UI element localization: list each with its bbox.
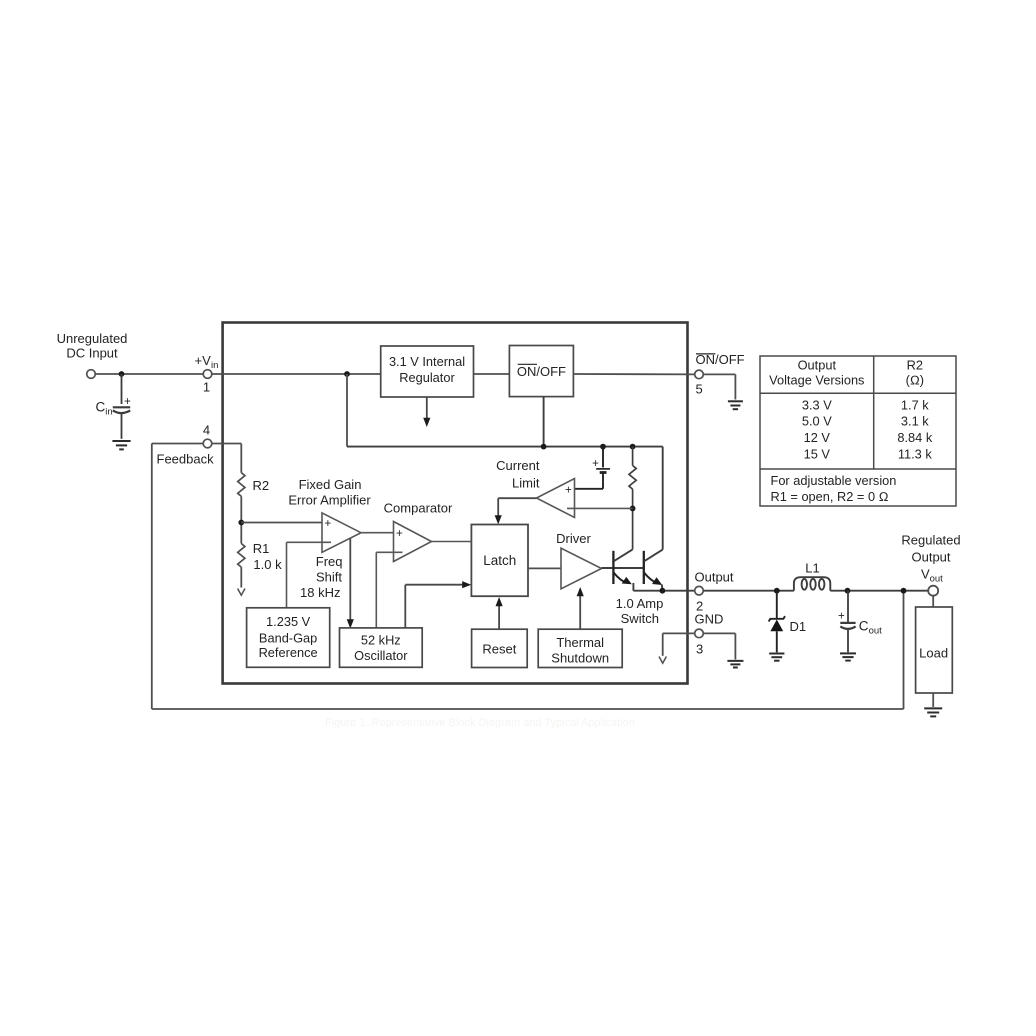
svg-text:Fixed Gain: Fixed Gain <box>299 477 362 492</box>
pin 3 terminal <box>695 629 704 638</box>
svg-text:Reset: Reset <box>482 642 516 657</box>
svg-text:Voltage Versions: Voltage Versions <box>769 373 864 388</box>
wire emitter to output pin <box>633 590 694 592</box>
input terminal <box>87 370 96 379</box>
svg-text:ON/OFF: ON/OFF <box>517 364 566 379</box>
wire rail drop to internal bus <box>346 374 348 447</box>
inductor L1 <box>794 577 830 591</box>
wire input to pin1 <box>95 373 203 375</box>
wire comparator minus input <box>376 552 402 628</box>
wire feedback loop <box>152 444 904 710</box>
wire oscillator to latch <box>405 585 464 628</box>
op-amp error amplifier <box>322 513 361 552</box>
resistor R1 1.0k <box>238 544 245 568</box>
label 1.0 Amp Switch <box>616 596 664 626</box>
svg-text:Output: Output <box>798 358 837 373</box>
svg-text:3.1 V Internal: 3.1 V Internal <box>389 354 465 369</box>
block Latch <box>471 525 528 597</box>
svg-text:+: + <box>124 396 131 408</box>
overline ON (pin label) <box>696 353 715 355</box>
svg-text:R2: R2 <box>253 478 270 493</box>
node feedback tap <box>901 588 907 594</box>
node bus junction battery <box>600 444 606 450</box>
resistor current sense <box>629 447 636 550</box>
svg-text:Shutdown: Shutdown <box>551 651 609 666</box>
transistor Q2 (1.0 Amp switch) <box>644 550 663 590</box>
ground (Load) <box>924 708 942 716</box>
ground (Cout) <box>840 653 856 660</box>
op-amp comparator <box>394 522 432 562</box>
wire bus bend to Q2 collector <box>662 447 664 550</box>
block Reset <box>472 629 528 667</box>
capacitor Cout <box>840 591 855 653</box>
svg-text:R1 = open, R2 = 0 Ω: R1 = open, R2 = 0 Ω <box>771 489 889 504</box>
ground (ON/OFF) <box>728 401 743 409</box>
wire R2 to node <box>240 496 242 543</box>
svg-text:Figure 1. Representative Block: Figure 1. Representative Block Diagram a… <box>325 717 635 729</box>
svg-text:18 kHz: 18 kHz <box>300 585 340 600</box>
battery V-ref current limit <box>575 447 610 489</box>
table footer text <box>771 473 897 504</box>
label Current Limit <box>496 458 540 491</box>
block oscillator 52kHz <box>340 628 423 667</box>
label Freq Shift 18 kHz <box>300 554 342 600</box>
svg-text:15 V: 15 V <box>804 447 831 462</box>
node feedback divider <box>238 520 244 526</box>
svg-text:+: + <box>324 518 331 530</box>
node bus junction ON/OFF <box>541 444 547 450</box>
arrow Reset to latch <box>496 597 503 629</box>
svg-text:+: + <box>838 611 845 623</box>
svg-text:Output: Output <box>911 550 950 565</box>
label ON/OFF pin5 <box>696 352 745 397</box>
node current-limit junction <box>630 506 636 512</box>
wire driver to bases <box>602 567 644 569</box>
svg-text:Regulator: Regulator <box>399 370 455 385</box>
svg-text:in: in <box>105 407 112 418</box>
svg-text:52 kHz: 52 kHz <box>361 633 401 648</box>
resistor Load box <box>916 607 953 693</box>
svg-text:3.1 k: 3.1 k <box>901 414 929 429</box>
svg-text:Current: Current <box>496 458 540 473</box>
svg-text:Switch: Switch <box>621 611 659 626</box>
wire CL minus input <box>567 507 633 509</box>
svg-text:Latch: Latch <box>483 553 516 568</box>
wire regulator to ON/OFF <box>474 373 510 375</box>
svg-text:Driver: Driver <box>556 531 591 546</box>
svg-text:Output: Output <box>695 570 734 585</box>
transistor Q1 <box>613 549 633 590</box>
pin 5 terminal <box>695 370 704 379</box>
wire Vout to load <box>932 596 934 607</box>
block band-gap reference <box>247 608 330 668</box>
ground (Cin) <box>112 441 130 449</box>
table header text <box>769 358 924 388</box>
svg-text:in: in <box>211 360 218 371</box>
svg-text:out: out <box>869 626 883 637</box>
wire load to ground <box>932 693 934 707</box>
svg-text:Reference: Reference <box>259 645 318 660</box>
arrow regulator output down <box>423 397 430 427</box>
svg-text:1.0 Amp: 1.0 Amp <box>616 596 664 611</box>
terminal Vout <box>928 586 938 596</box>
overline ON (block) <box>518 363 537 365</box>
svg-text:L1: L1 <box>805 561 819 576</box>
label Cin <box>96 400 113 418</box>
svg-text:Regulated: Regulated <box>901 533 960 548</box>
svg-text:Limit: Limit <box>512 476 540 491</box>
ground (D1) <box>769 654 784 661</box>
pin 4 terminal <box>203 439 212 448</box>
label Output pin2 <box>695 570 734 614</box>
svg-text:Comparator: Comparator <box>384 501 453 516</box>
label Unregulated DC Input <box>57 331 128 361</box>
svg-text:1.7 k: 1.7 k <box>901 398 929 413</box>
wire internal supply bus <box>347 446 663 448</box>
wire pin3 to ground <box>703 633 735 659</box>
wire divider to error amp + <box>241 522 322 524</box>
label Cout <box>859 619 882 637</box>
svg-text:4: 4 <box>203 423 210 438</box>
arrow into oscillator <box>347 619 354 628</box>
wire pin5 to ground <box>703 374 735 399</box>
wire output line to L1 <box>703 590 794 592</box>
op-amp current limit comparator <box>537 479 575 518</box>
diode D1 (Schottky) <box>769 591 785 653</box>
svg-text:GND: GND <box>695 612 724 627</box>
node D1 tap <box>774 588 780 594</box>
regulator box 3.1V <box>381 346 474 397</box>
table rows text <box>802 398 933 462</box>
arrow into latch side <box>462 581 471 588</box>
svg-text:C: C <box>96 400 106 415</box>
svg-text:Band-Gap: Band-Gap <box>259 630 317 645</box>
svg-text:out: out <box>930 573 944 584</box>
wire error amp minus input <box>287 542 332 608</box>
svg-text:R2: R2 <box>907 358 923 373</box>
svg-text:R1: R1 <box>253 541 270 556</box>
svg-text:Error Amplifier: Error Amplifier <box>288 492 371 507</box>
svg-text:1.235 V: 1.235 V <box>266 614 311 629</box>
block ON/OFF <box>509 346 573 397</box>
wire comparator to latch <box>432 541 472 543</box>
buffer driver <box>561 548 602 589</box>
wire CL output to latch <box>498 498 536 517</box>
svg-text:5: 5 <box>696 382 703 397</box>
svg-text:1: 1 <box>203 380 210 395</box>
node output emitter junction <box>660 588 666 594</box>
svg-text:Oscillator: Oscillator <box>354 648 408 663</box>
svg-text:1.0 k: 1.0 k <box>253 557 282 572</box>
wire error amp to comparator <box>361 532 394 534</box>
wire ON/OFF to pin5 <box>573 373 694 375</box>
svg-text:Feedback: Feedback <box>157 451 215 466</box>
svg-text:5.0 V: 5.0 V <box>802 414 832 429</box>
svg-text:DC Input: DC Input <box>66 346 118 361</box>
svg-text:+: + <box>565 485 572 497</box>
svg-text:12 V: 12 V <box>804 430 831 445</box>
arrow open R1 to ground net <box>238 589 245 596</box>
capacitor Cin <box>113 374 130 439</box>
node bus junction sense resistor <box>630 444 636 450</box>
wire R1 down <box>240 567 242 587</box>
svg-text:For adjustable version: For adjustable version <box>771 473 897 488</box>
wire pin4 to divider <box>212 444 242 473</box>
ground (GND pin) <box>727 661 743 668</box>
svg-text:Freq: Freq <box>316 554 343 569</box>
node input junction <box>119 371 125 377</box>
arrow into latch top <box>495 515 502 524</box>
arrow Thermal Shutdown to driver <box>577 587 584 629</box>
svg-text:(Ω): (Ω) <box>906 373 924 388</box>
resistor R2 <box>238 473 245 497</box>
svg-text:+: + <box>396 528 403 540</box>
svg-text:C: C <box>859 619 869 634</box>
pin 1 terminal <box>203 370 212 379</box>
svg-text:+V: +V <box>195 353 212 368</box>
svg-text:+: + <box>592 458 599 470</box>
label GND pin3 <box>695 612 724 657</box>
label Regulated Output Vout <box>901 533 960 565</box>
svg-text:3.3 V: 3.3 V <box>802 398 832 413</box>
IC block outline U1 <box>223 323 688 684</box>
label Fixed Gain Error Amplifier <box>288 477 371 507</box>
wire main Vin rail <box>212 373 381 375</box>
arrow open internal ground <box>659 657 666 664</box>
pin 2 terminal <box>695 586 704 595</box>
svg-text:11.3 k: 11.3 k <box>898 447 933 462</box>
svg-text:8.84 k: 8.84 k <box>897 430 932 445</box>
svg-text:Load: Load <box>919 646 948 661</box>
svg-text:Unregulated: Unregulated <box>57 331 128 346</box>
table R2 values <box>760 356 956 506</box>
wire latch to driver <box>528 567 561 569</box>
wire internal ground <box>663 633 695 655</box>
wire L1 to Vout <box>830 590 928 592</box>
label +Vin pin1 <box>195 353 219 395</box>
wire ON/OFF block drop <box>543 397 545 447</box>
svg-text:Thermal: Thermal <box>556 635 604 650</box>
wire freq shift to oscillator <box>349 538 351 621</box>
svg-text:Shift: Shift <box>316 570 342 585</box>
node Cout tap <box>845 588 851 594</box>
svg-text:3: 3 <box>696 642 703 657</box>
node rail junction <box>344 371 350 377</box>
block Thermal Shutdown <box>538 629 622 667</box>
svg-text:D1: D1 <box>790 619 807 634</box>
